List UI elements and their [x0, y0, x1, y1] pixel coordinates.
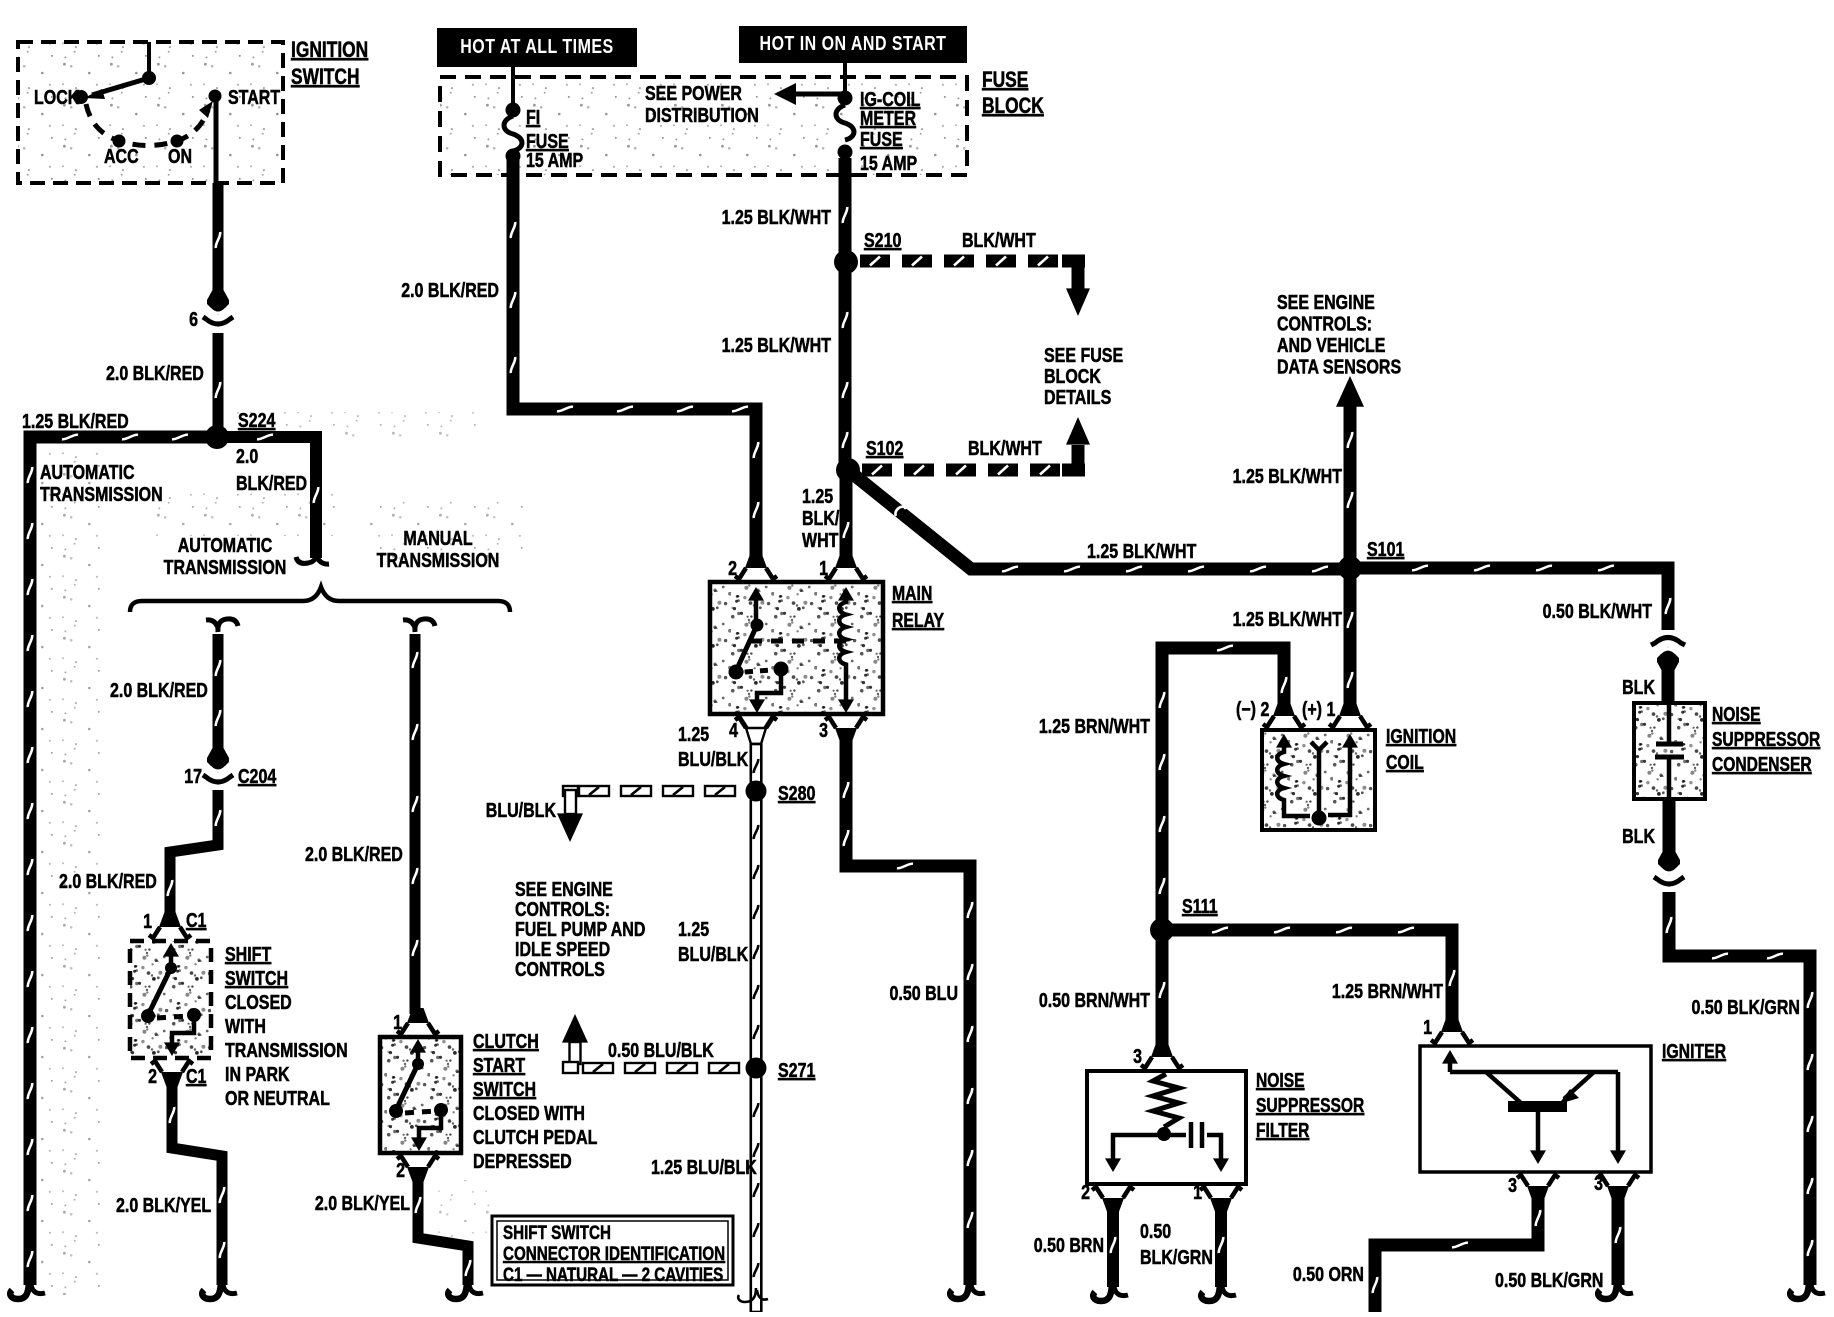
svg-text:1.25 BRN/WHT: 1.25 BRN/WHT — [1332, 980, 1443, 1002]
main relay box — [710, 582, 883, 714]
svg-text:0.50 BRN/WHT: 0.50 BRN/WHT — [1039, 989, 1150, 1011]
manual branch top curl — [403, 619, 435, 632]
svg-text:1: 1 — [393, 1011, 402, 1033]
svg-text:FUEL PUMP AND: FUEL PUMP AND — [515, 918, 645, 940]
svg-text:BLK/: BLK/ — [802, 507, 839, 529]
svg-text:SWITCH: SWITCH — [473, 1078, 536, 1100]
filter capacitor plates — [1189, 1122, 1194, 1148]
wire FI fuse to main relay pin 2 — [513, 160, 756, 566]
shift switch contact dot 2 — [141, 1009, 155, 1023]
ignition switch box — [18, 42, 283, 183]
condenser plate 2 — [1655, 755, 1684, 760]
clutch branch wire end curl — [448, 1278, 467, 1299]
ignition coil pin 2 connector — [1273, 701, 1295, 716]
svg-text:CLOSED WITH: CLOSED WITH — [473, 1102, 585, 1124]
svg-text:S101: S101 — [1367, 538, 1404, 560]
svg-text:1: 1 — [143, 910, 152, 932]
arrow up to engine controls — [562, 1014, 588, 1043]
noise suppressor condenser box — [1634, 703, 1705, 799]
ignition switch arm to LOCK — [92, 78, 149, 95]
svg-text:START: START — [228, 86, 280, 108]
banner HOT AT ALL TIMES — [437, 28, 637, 67]
coil secondary line — [1311, 742, 1327, 818]
svg-text:2.0 BLK/RED: 2.0 BLK/RED — [106, 362, 204, 384]
wire filter pin 2 down — [1107, 1204, 1119, 1287]
wire ignition switch to connector 6 — [213, 183, 224, 302]
shift switch box — [130, 941, 211, 1058]
svg-text:AUTOMATIC: AUTOMATIC — [178, 534, 273, 556]
shift switch contact arrow — [169, 950, 174, 968]
inline connector condenser top — [1651, 638, 1685, 646]
svg-text:MAIN: MAIN — [892, 582, 932, 604]
segmented wire S102 to fuse block details — [862, 464, 892, 477]
svg-text:HOT AT ALL TIMES: HOT AT ALL TIMES — [460, 35, 613, 57]
condenser lead top — [1667, 703, 1672, 742]
svg-text:BLK/GRN: BLK/GRN — [1140, 1246, 1213, 1268]
shift branch wire end curl — [202, 1278, 221, 1299]
svg-text:HOT IN ON AND START: HOT IN ON AND START — [760, 32, 947, 54]
filter pin 2 connector — [1102, 1198, 1124, 1213]
wire S210 to S102 — [839, 262, 852, 470]
ignition switch pivot contact — [142, 71, 156, 85]
ON contact — [171, 135, 184, 148]
igniter transistor emitter diagonal with arrow — [1564, 1072, 1594, 1099]
igniter base lead down — [1536, 1112, 1541, 1153]
svg-text:BLK: BLK — [1622, 825, 1655, 847]
svg-text:TRANSMISSION: TRANSMISSION — [377, 549, 500, 571]
white wire bottom curl — [738, 1288, 768, 1302]
svg-text:CONTROLS:: CONTROLS: — [1277, 313, 1372, 335]
svg-text:DATA SENSORS: DATA SENSORS — [1277, 356, 1401, 378]
splice S280 — [746, 781, 767, 802]
igniter pin 3 right connector — [1607, 1186, 1629, 1201]
svg-text:SEE ENGINE: SEE ENGINE — [515, 878, 613, 900]
wire condenser to lower connector — [1663, 799, 1676, 860]
segmented white wire S280 left — [579, 786, 609, 796]
svg-text:1.25 BLK/WHT: 1.25 BLK/WHT — [722, 334, 831, 356]
coil common dot — [1312, 811, 1327, 826]
svg-text:1.25: 1.25 — [678, 723, 709, 745]
shift switch pin 2 connector — [161, 1072, 183, 1087]
svg-text:WHT: WHT — [802, 529, 838, 551]
svg-text:4: 4 — [729, 719, 738, 741]
svg-text:SEE POWER: SEE POWER — [645, 82, 742, 104]
svg-text:S210: S210 — [864, 229, 901, 251]
svg-text:TRANSMISSION: TRANSMISSION — [40, 483, 163, 505]
svg-text:0.50 BLU: 0.50 BLU — [890, 982, 958, 1004]
ignition switch pivot wire — [147, 42, 151, 76]
main relay pin 1 connector — [835, 553, 857, 568]
svg-text:17: 17 — [184, 765, 202, 787]
wire C204 to C1 pin 1 — [170, 790, 218, 918]
svg-text:0.50 BLK/GRN: 0.50 BLK/GRN — [1495, 1269, 1603, 1291]
filter junction dot — [1157, 1127, 1171, 1141]
svg-text:BLU/BLK: BLU/BLK — [486, 799, 556, 821]
clutch switch pin 2 connector — [407, 1167, 429, 1182]
svg-text:NOISE: NOISE — [1256, 1069, 1305, 1091]
svg-text:IDLE SPEED: IDLE SPEED — [515, 938, 610, 960]
svg-text:2.0 BLK/YEL: 2.0 BLK/YEL — [315, 1192, 410, 1214]
shift switch exit elbow — [172, 1015, 194, 1044]
IG-COIL fuse top contact — [838, 91, 853, 106]
FI fuse element — [504, 116, 522, 151]
svg-text:IGNITION: IGNITION — [1386, 725, 1456, 747]
shift switch dashed link — [157, 1016, 188, 1018]
wire connector to condenser — [1662, 660, 1675, 704]
wire manual branch to clutch switch — [410, 634, 421, 1014]
splice S111 — [1150, 918, 1174, 942]
igniter pin 1 connector — [1441, 1017, 1463, 1032]
svg-text:S271: S271 — [778, 1059, 815, 1081]
svg-text:C1: C1 — [186, 1065, 206, 1087]
wire S111 down to filter pin 3 — [1156, 930, 1169, 1048]
svg-text:3: 3 — [1133, 1045, 1142, 1067]
svg-text:2.0 BLK/RED: 2.0 BLK/RED — [110, 679, 208, 701]
svg-text:AUTOMATIC: AUTOMATIC — [40, 461, 135, 483]
svg-text:0.50: 0.50 — [1140, 1220, 1171, 1242]
svg-text:1.25 BRN/WHT: 1.25 BRN/WHT — [1039, 715, 1150, 737]
svg-text:SEE FUSE: SEE FUSE — [1044, 344, 1123, 366]
svg-text:1.25 BLK/WHT: 1.25 BLK/WHT — [1233, 608, 1342, 630]
svg-text:BLK/WHT: BLK/WHT — [968, 437, 1042, 459]
svg-text:ACC: ACC — [104, 145, 139, 167]
svg-text:2: 2 — [1081, 1181, 1090, 1203]
main relay exit elbow to pin 4 — [757, 669, 781, 702]
shift switch pin 1 connector — [159, 912, 181, 927]
white wire main relay pin 4 to bottom — [746, 728, 766, 744]
wire S111 right to igniter pin 1 — [1162, 930, 1452, 1028]
wire connector 6 to S224 — [213, 333, 224, 437]
svg-text:6: 6 — [189, 308, 198, 330]
shift switch contact dot 3 — [187, 1008, 201, 1022]
svg-text:3: 3 — [1594, 1172, 1603, 1194]
inline connector condenser bottom — [1658, 850, 1680, 875]
clutch switch contact dot 3 — [434, 1103, 448, 1117]
wire S102 to main relay pin 1 — [840, 470, 853, 566]
svg-text:S224: S224 — [238, 409, 275, 431]
automatic branch top curl — [206, 619, 238, 632]
ignition coil box — [1262, 730, 1375, 830]
wire main relay pin 3 to bottom — [846, 734, 970, 1285]
svg-text:1.25 BLU/BLK: 1.25 BLU/BLK — [651, 1156, 757, 1178]
igniter top rail — [1450, 1070, 1618, 1075]
pin 3 wire end curl — [950, 1278, 969, 1299]
segmented white wire S271 left — [583, 1063, 613, 1073]
main relay pin 3 connector — [835, 728, 857, 743]
svg-text:SWITCH: SWITCH — [225, 967, 288, 989]
svg-text:2.0: 2.0 — [236, 445, 258, 467]
svg-text:BLK/RED: BLK/RED — [236, 472, 307, 494]
clutch start switch box — [380, 1037, 461, 1153]
LOCK contact — [74, 90, 88, 104]
main relay pin 4 connector — [745, 728, 767, 743]
svg-text:2: 2 — [148, 1065, 157, 1087]
svg-text:START: START — [473, 1054, 525, 1076]
clutch switch pin 1 connector — [407, 1008, 429, 1023]
banner HOT IN ON AND START — [739, 26, 967, 63]
svg-text:0.50 BLK/WHT: 0.50 BLK/WHT — [1543, 600, 1652, 622]
svg-text:15 AMP: 15 AMP — [860, 152, 917, 174]
svg-text:BLK/WHT: BLK/WHT — [962, 229, 1036, 251]
svg-text:IGNITION: IGNITION — [291, 38, 368, 62]
svg-text:0.50 BLK/GRN: 0.50 BLK/GRN — [1692, 996, 1800, 1018]
connector 6 — [207, 290, 229, 315]
connector C204 — [207, 748, 229, 773]
svg-text:RELAY: RELAY — [892, 609, 944, 631]
segmented wire S210 to fuse block details — [860, 255, 890, 268]
svg-text:DEPRESSED: DEPRESSED — [473, 1150, 572, 1172]
svg-text:15 AMP: 15 AMP — [526, 149, 583, 171]
splice S102 — [836, 458, 860, 482]
main relay switch arm — [736, 625, 757, 671]
right branch end curl hook — [296, 548, 329, 564]
condenser lead bottom — [1667, 757, 1672, 799]
svg-text:CONTROLS:: CONTROLS: — [515, 898, 610, 920]
svg-text:1.25: 1.25 — [678, 918, 709, 940]
IG-COIL fuse lead — [843, 63, 847, 95]
wire igniter pin 3 right to bottom — [1612, 1192, 1625, 1285]
wire ignition coil pin 2 loop to S111 — [1162, 648, 1284, 930]
main relay coil winding — [839, 596, 846, 702]
svg-text:SUPPRESSOR: SUPPRESSOR — [1712, 728, 1820, 750]
wire S101 up arrow to engine controls — [1344, 404, 1357, 560]
svg-text:S111: S111 — [1182, 895, 1218, 917]
splice S271 — [746, 1058, 767, 1079]
coil primary winding entry arrow — [1276, 734, 1292, 748]
IG-COIL fuse element — [836, 105, 854, 140]
svg-text:0.50 ORN: 0.50 ORN — [1293, 1263, 1364, 1285]
coil pin1 inner line — [1328, 742, 1350, 815]
svg-text:C204: C204 — [238, 765, 276, 787]
START contact — [209, 90, 222, 103]
noise suppressor filter box — [1087, 1071, 1246, 1184]
svg-text:1.25 BLK/WHT: 1.25 BLK/WHT — [1087, 540, 1196, 562]
svg-text:TRANSMISSION: TRANSMISSION — [164, 556, 287, 578]
igniter transistor base bar — [1508, 1101, 1567, 1112]
svg-text:IGNITER: IGNITER — [1662, 1040, 1726, 1062]
FI fuse lead — [511, 67, 515, 108]
svg-text:S280: S280 — [778, 782, 815, 804]
wire S101 right to condenser — [1350, 568, 1668, 630]
main relay contact dot lower — [729, 665, 744, 680]
svg-text:2.0 BLK/RED: 2.0 BLK/RED — [401, 279, 499, 301]
coil primary winding — [1277, 742, 1310, 816]
svg-text:BLOCK: BLOCK — [982, 94, 1044, 118]
brace for transmission split — [130, 587, 510, 612]
clutch switch contact arrow — [416, 1046, 421, 1064]
svg-text:BLU/BLK: BLU/BLK — [678, 748, 748, 770]
svg-text:1.25 BLK/WHT: 1.25 BLK/WHT — [1233, 465, 1342, 487]
svg-text:SHIFT: SHIFT — [225, 943, 271, 965]
svg-text:BLOCK: BLOCK — [1044, 365, 1101, 387]
svg-text:S102: S102 — [866, 437, 903, 459]
svg-text:SWITCH: SWITCH — [291, 65, 360, 89]
svg-text:(−) 2: (−) 2 — [1236, 698, 1269, 720]
START wire inside box — [214, 96, 219, 183]
svg-text:(+) 1: (+) 1 — [1302, 698, 1335, 720]
svg-text:BLU/BLK: BLU/BLK — [678, 943, 748, 965]
svg-text:3: 3 — [819, 719, 828, 741]
svg-text:WITH: WITH — [225, 1015, 266, 1037]
IG-COIL fuse bottom contact — [838, 145, 853, 160]
svg-text:0.50 BRN: 0.50 BRN — [1034, 1234, 1104, 1256]
svg-text:1.25 BLK/RED: 1.25 BLK/RED — [22, 410, 129, 432]
svg-text:CLUTCH PEDAL: CLUTCH PEDAL — [473, 1126, 597, 1148]
svg-text:1: 1 — [1423, 1016, 1432, 1038]
svg-text:2.0 BLK/YEL: 2.0 BLK/YEL — [116, 1194, 211, 1216]
svg-text:METER: METER — [860, 107, 916, 129]
svg-text:OR NEUTRAL: OR NEUTRAL — [225, 1087, 330, 1109]
svg-text:NOISE: NOISE — [1712, 703, 1761, 725]
svg-text:DISTRIBUTION: DISTRIBUTION — [645, 104, 759, 126]
svg-text:0.50 BLU/BLK: 0.50 BLU/BLK — [608, 1039, 714, 1061]
filter inductor spring — [1153, 1074, 1179, 1127]
filter pin 3 connector — [1151, 1042, 1173, 1057]
svg-text:FUSE: FUSE — [982, 68, 1028, 92]
svg-text:1.25 BLK/WHT: 1.25 BLK/WHT — [722, 206, 831, 228]
clutch switch dashed link — [405, 1111, 436, 1113]
svg-text:IN PARK: IN PARK — [225, 1063, 290, 1085]
filter left branch — [1113, 1135, 1164, 1160]
svg-text:FUSE: FUSE — [860, 128, 903, 150]
igniter entry arrow — [1442, 1050, 1458, 1064]
main relay mech link dashed — [750, 639, 846, 644]
svg-text:SEE ENGINE: SEE ENGINE — [1277, 291, 1375, 313]
svg-text:LOCK: LOCK — [34, 86, 79, 108]
wire IG-COIL fuse to S210 — [839, 158, 852, 262]
svg-text:CLUTCH: CLUTCH — [473, 1030, 539, 1052]
fuse block dashed box — [440, 77, 967, 175]
shift switch contact dot 1 — [165, 962, 177, 974]
filter capacitor branch — [1164, 1135, 1221, 1160]
shift switch arm — [148, 968, 171, 1015]
svg-text:CONDENSER: CONDENSER — [1712, 753, 1812, 775]
wire S102 diagonal to S101 — [848, 470, 1350, 569]
ACC contact — [113, 135, 126, 148]
dashed arc LOCK-ACC-ON-START — [86, 104, 208, 146]
splice S101 — [1338, 556, 1362, 580]
svg-text:1: 1 — [1193, 1181, 1202, 1203]
svg-text:MANUAL: MANUAL — [403, 527, 472, 549]
FI fuse top contact — [506, 103, 521, 118]
condenser plate 1 — [1656, 742, 1683, 747]
clutch switch contact dot 1 — [412, 1058, 424, 1070]
left edge wire end curl — [10, 1278, 29, 1299]
svg-text:SUPPRESSOR: SUPPRESSOR — [1256, 1094, 1364, 1116]
svg-text:CLOSED: CLOSED — [225, 991, 292, 1013]
clutch switch exit elbow — [419, 1110, 441, 1140]
wire igniter pin 3 left to bottom — [1375, 1192, 1538, 1312]
svg-text:C1 — NATURAL — 2 CAVITIES: C1 — NATURAL — 2 CAVITIES — [503, 1263, 723, 1285]
svg-text:BLK: BLK — [1622, 676, 1655, 698]
svg-text:CONTROLS: CONTROLS — [515, 958, 605, 980]
svg-text:TRANSMISSION: TRANSMISSION — [225, 1039, 348, 1061]
svg-text:C1: C1 — [186, 909, 206, 931]
splice S210 — [834, 250, 858, 274]
wire S224 right branch to brace — [217, 437, 316, 558]
wire shift switch pin 2 down — [172, 1078, 222, 1285]
svg-text:AND VEHICLE: AND VEHICLE — [1277, 334, 1385, 356]
wire filter pin 1 down — [1215, 1204, 1227, 1287]
main relay contact dot upper — [751, 619, 764, 632]
arrow to power distribution — [790, 92, 842, 97]
svg-text:2.0 BLK/RED: 2.0 BLK/RED — [59, 870, 157, 892]
ignition coil pin 1 connector — [1339, 701, 1361, 716]
clutch switch arm — [396, 1064, 418, 1110]
main relay coil entry arrow — [838, 587, 854, 601]
igniter right lead down — [1616, 1072, 1621, 1153]
condenser wire end curl — [1790, 1278, 1809, 1299]
svg-text:SHIFT SWITCH: SHIFT SWITCH — [503, 1221, 611, 1243]
main relay contact entry arrow — [754, 592, 759, 625]
wire condenser connector to bottom right — [1669, 892, 1810, 1285]
splice S224 — [205, 425, 229, 449]
svg-text:ON: ON — [168, 145, 192, 167]
FI fuse bottom contact — [506, 149, 521, 164]
svg-text:CONNECTOR IDENTIFICATION: CONNECTOR IDENTIFICATION — [503, 1242, 725, 1264]
svg-text:1.25: 1.25 — [802, 485, 833, 507]
main relay contact dot 3 — [774, 662, 789, 677]
clutch switch contact dot 2 — [389, 1104, 403, 1118]
igniter transistor collector diagonal — [1486, 1072, 1521, 1103]
main relay pin 2 connector — [745, 553, 767, 568]
filter pin 1 connector — [1210, 1198, 1232, 1213]
wire automatic branch to C204 — [213, 634, 224, 760]
svg-text:2.0 BLK/RED: 2.0 BLK/RED — [305, 843, 403, 865]
main relay short dash dot2-dot3 — [745, 670, 772, 672]
svg-text:DETAILS: DETAILS — [1044, 386, 1111, 408]
svg-text:FILTER: FILTER — [1256, 1119, 1309, 1141]
shift switch connector identification box — [492, 1216, 733, 1285]
svg-text:COIL: COIL — [1386, 751, 1424, 773]
wire S224 left and down left edge — [30, 437, 217, 1285]
svg-text:3: 3 — [1508, 1174, 1517, 1196]
igniter box — [1420, 1046, 1651, 1172]
igniter pin 3 left connector — [1527, 1186, 1549, 1201]
wire S101 down to ignition coil pin 1 — [1344, 568, 1357, 714]
scan noise patches — [30, 445, 102, 1295]
wire clutch switch pin 2 down — [418, 1173, 468, 1285]
svg-text:FI: FI — [526, 106, 540, 128]
